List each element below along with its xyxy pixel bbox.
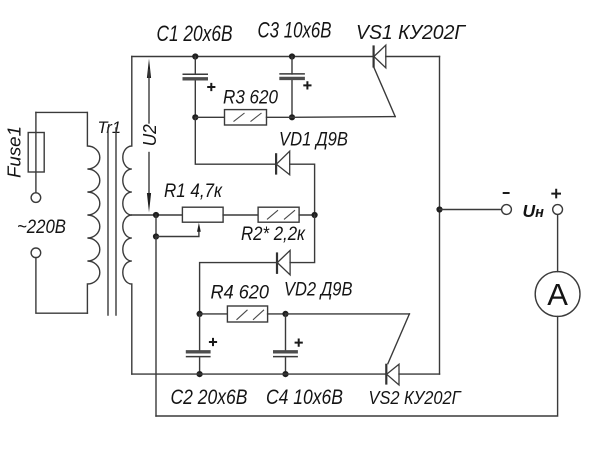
wire R3 right (267, 116, 293, 118)
wire bottom bus (132, 373, 386, 375)
terminal minus (502, 205, 512, 215)
wire fuse lead (35, 112, 37, 192)
capacitor C2 (186, 314, 217, 374)
svg-text:R1 4,7к: R1 4,7к (164, 181, 223, 202)
wire mains bottom (36, 258, 88, 314)
wire VS1 gate horizontal (292, 116, 395, 119)
wire mains top (36, 111, 87, 113)
wire plus to ammeter (557, 215, 559, 272)
arrow U2 top (147, 59, 151, 79)
transformer Tr1 secondary (123, 57, 132, 375)
node R4 right (282, 311, 288, 317)
node C4 bottom (282, 371, 288, 377)
label plus (551, 189, 561, 199)
wire U2 arrow line upper (148, 70, 150, 123)
svg-text:Tr1: Tr1 (98, 118, 122, 137)
wire R1 to R2 (223, 214, 258, 216)
capacitor C4 (273, 314, 303, 374)
wire top bus left (132, 56, 373, 58)
resistor R4 (227, 306, 267, 322)
svg-text:C4 10x6В: C4 10x6В (266, 386, 343, 409)
wire VD1 right (290, 164, 315, 215)
svg-text:C3 10x6В: C3 10x6В (258, 18, 332, 43)
wire output minus (440, 209, 502, 211)
resistor R1 (182, 207, 223, 222)
arrow U2 bottom (147, 193, 151, 213)
node output minus (436, 206, 442, 212)
transformer Tr1 primary (87, 112, 99, 313)
wire VS2 right (399, 373, 440, 375)
svg-text:VD2 Д9В: VD2 Д9В (284, 280, 353, 301)
node C3 bottom (289, 114, 295, 120)
wire R2 to VD2 (290, 215, 315, 263)
terminal plus (553, 205, 563, 215)
svg-text:R3 620: R3 620 (223, 88, 278, 109)
wire center tap return (155, 237, 157, 417)
label minus (503, 192, 510, 194)
terminal mains lower (31, 248, 41, 258)
svg-text:~220В: ~220В (17, 217, 66, 238)
diode VD1 (276, 151, 290, 175)
svg-text:VS2 КУ202Г: VS2 КУ202Г (369, 388, 462, 408)
wire U2 arrow line lower (148, 153, 150, 199)
wire VD1 left vertical (195, 117, 275, 164)
wire right bus vertical (439, 57, 441, 375)
wire R1 wiper (156, 231, 199, 237)
resistor R3 (225, 110, 267, 125)
wire tap to R1 (132, 214, 183, 216)
svg-text:VS1 КУ202Г: VS1 КУ202Г (356, 22, 467, 44)
node R4 left (197, 311, 203, 317)
wire ammeter to bottom (156, 316, 558, 416)
node tap (153, 212, 159, 218)
node C1 top (192, 53, 198, 59)
diode VD2 (277, 250, 290, 274)
svg-text:C1 20x6В: C1 20x6В (157, 21, 233, 46)
svg-text:R2* 2,2к: R2* 2,2к (241, 224, 306, 245)
ammeter PA1 (535, 272, 580, 317)
capacitor C1 (183, 57, 216, 118)
arrow R1 wiper (197, 223, 201, 232)
svg-text:U2: U2 (140, 124, 160, 146)
thyristor VS2 (386, 314, 409, 385)
wire R4 right (268, 313, 286, 315)
wire VD2 left (200, 263, 277, 314)
svg-text:Fuse1: Fuse1 (4, 126, 24, 178)
wire VS2 gate horizontal (286, 313, 410, 315)
fuse FU1 (28, 133, 44, 173)
transformer Tr1 core (108, 128, 116, 315)
svg-text:A: A (547, 277, 568, 312)
thyristor VS1 (374, 45, 396, 116)
svg-text:C2 20x6В: C2 20x6В (171, 386, 248, 409)
node C2 bottom (197, 371, 203, 377)
wire wiper vertical (155, 215, 157, 237)
svg-text:VD1 Д9В: VD1 Д9В (279, 130, 348, 151)
node C1 bottom (192, 114, 198, 120)
capacitor C3 (279, 57, 311, 118)
terminal mains upper (31, 193, 41, 203)
node wiper (153, 233, 159, 239)
svg-text:R4 620: R4 620 (211, 283, 270, 304)
wire top bus right (386, 56, 440, 58)
node C3 top (289, 53, 295, 59)
resistor R2 (258, 207, 299, 222)
wire R4 left (200, 313, 228, 315)
node R2 right (312, 212, 318, 218)
wire R3 left (195, 116, 224, 118)
wire R2 right (299, 214, 315, 216)
